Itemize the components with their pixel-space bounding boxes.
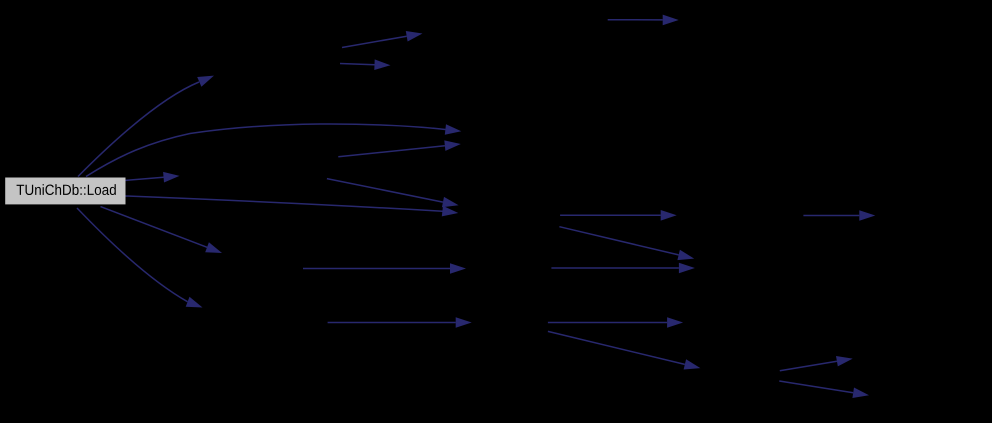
edge E19 node15->node17 bbox=[779, 381, 869, 398]
edge E16 node11->node14 bbox=[548, 317, 683, 328]
edge E8 node2->node3b bbox=[340, 59, 391, 70]
edge E13 node7->node12 bbox=[560, 210, 677, 221]
edge E5 Load->node9 bbox=[101, 207, 223, 253]
edge E15 node7b->node13 bbox=[551, 263, 695, 274]
edge E20 node12->node18 bbox=[803, 210, 875, 221]
edge E14 node7->node13 bbox=[559, 227, 694, 260]
edge E6 Load->node10 (curved down) bbox=[77, 208, 203, 308]
edge E2 Load->node5 (long flat curve) bbox=[86, 124, 461, 177]
edge E21 node3a->node19 bbox=[608, 15, 679, 26]
edge E11 node6->node7b bbox=[303, 263, 466, 274]
edge E9 node4->node5 bbox=[338, 140, 461, 156]
edge E3 Load->node4 (short) bbox=[126, 172, 180, 183]
edge E1 Load->node2 (curved up) bbox=[78, 76, 214, 177]
edge E18 node15->node16 bbox=[780, 356, 853, 371]
edge E4 Load->node7 (long shallow) bbox=[126, 196, 459, 216]
edge E7 node2->node3a bbox=[342, 31, 423, 48]
edge E17 node11->node15 bbox=[548, 331, 701, 369]
edge E10 node4->node7 bbox=[327, 179, 459, 208]
edge E12 node8->node11 bbox=[328, 317, 472, 328]
node box TUniChDb::Load bbox=[5, 178, 125, 205]
